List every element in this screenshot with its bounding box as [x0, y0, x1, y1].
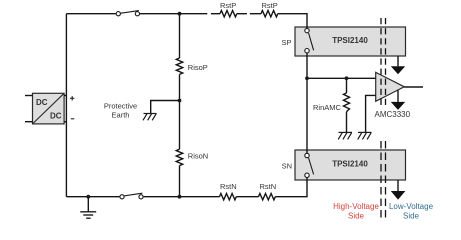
svg-text:DC: DC: [50, 112, 62, 121]
svg-text:RstP: RstP: [262, 1, 278, 10]
svg-text:Side: Side: [348, 211, 365, 220]
svg-text:RstN: RstN: [260, 182, 277, 191]
svg-text:RstP: RstP: [220, 1, 236, 10]
svg-text:Protective: Protective: [104, 102, 137, 111]
svg-text:TPSI2140: TPSI2140: [332, 36, 368, 45]
svg-text:SN: SN: [282, 162, 292, 171]
svg-text:Low-Voltage: Low-Voltage: [389, 202, 434, 211]
svg-text:RisoP: RisoP: [188, 63, 208, 72]
svg-text:Earth: Earth: [112, 111, 130, 120]
svg-text:Side: Side: [403, 211, 420, 220]
svg-text:DC: DC: [36, 98, 48, 107]
svg-text:RisoN: RisoN: [188, 152, 208, 161]
svg-text:High-Voltage: High-Voltage: [333, 202, 379, 211]
svg-text:TPSI2140: TPSI2140: [332, 159, 368, 168]
svg-text:SP: SP: [281, 38, 291, 47]
svg-text:RinAMC: RinAMC: [313, 103, 342, 112]
svg-text:AMC3330: AMC3330: [375, 110, 411, 119]
svg-text:RstN: RstN: [220, 182, 237, 191]
